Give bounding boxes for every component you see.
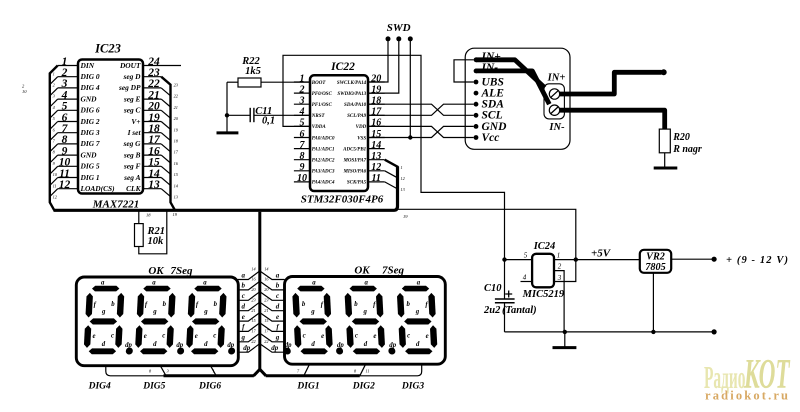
watermark Radio KOT logo <box>704 352 791 398</box>
display2 digit 1 segments (mirrored) <box>280 286 333 355</box>
svg-text:MAX7221: MAX7221 <box>92 198 139 210</box>
svg-text:CLK: CLK <box>126 184 141 193</box>
digit select rail right thin + DIG3 <box>360 365 422 376</box>
svg-text:12: 12 <box>59 179 71 191</box>
svg-text:MISO/PA6: MISO/PA6 <box>342 170 366 175</box>
svg-text:11: 11 <box>53 183 57 188</box>
IC24 pin 5 wire <box>504 259 533 261</box>
watermark radiokot.ru <box>705 389 788 403</box>
svg-text:3: 3 <box>167 368 169 373</box>
svg-text:a: a <box>312 280 316 287</box>
IC24 pin 2 wire (GND) <box>554 271 564 331</box>
svg-text:a: a <box>417 280 421 287</box>
svg-text:MOSI/PA7: MOSI/PA7 <box>342 159 366 164</box>
IC U23 MAX7221 chip body <box>78 60 143 194</box>
svg-text:8: 8 <box>300 151 305 162</box>
svg-text:DIG 2: DIG 2 <box>80 117 100 126</box>
bus split to digit rails <box>254 369 266 376</box>
svg-text:2: 2 <box>299 84 305 95</box>
svg-text:3: 3 <box>557 274 562 282</box>
svg-text:11: 11 <box>366 368 370 373</box>
svg-text:13: 13 <box>371 151 381 162</box>
7-segment display module 1 box <box>76 277 238 366</box>
digit select rail right (thick) <box>266 374 360 377</box>
svg-text:e: e <box>242 313 245 321</box>
svg-text:dp: dp <box>125 342 132 349</box>
svg-text:SCL/PA9: SCL/PA9 <box>347 114 367 119</box>
wire VR2 in to +9-12V terminal <box>671 258 712 260</box>
svg-text:+5V: +5V <box>591 247 612 259</box>
svg-text:20: 20 <box>370 73 381 84</box>
screw terminal IN+ <box>547 73 566 100</box>
svg-text:c: c <box>242 292 245 300</box>
svg-text:3: 3 <box>299 96 305 107</box>
fat wire terminal 1 out to stub node <box>558 72 662 94</box>
svg-text:23: 23 <box>147 67 160 79</box>
svg-text:SCK/PA5: SCK/PA5 <box>347 181 367 186</box>
display1 digit 1 segments <box>83 286 136 355</box>
svg-text:dp: dp <box>285 342 292 349</box>
svg-text:b: b <box>354 301 358 308</box>
svg-text:4: 4 <box>299 107 305 118</box>
svg-text:13: 13 <box>148 179 160 191</box>
svg-text:e: e <box>195 333 198 340</box>
svg-text:g: g <box>101 309 106 316</box>
bus wrapper right side of IC23 <box>161 77 179 211</box>
svg-text:6: 6 <box>300 129 305 140</box>
svg-text:DIG 6: DIG 6 <box>80 106 100 115</box>
resistor R21 10k (Iset) <box>135 212 178 254</box>
svg-text:d: d <box>102 341 106 348</box>
SWD pin 2 wire (SWDIO) <box>368 39 399 93</box>
svg-text:11: 11 <box>59 168 70 180</box>
svg-text:DIG 0: DIG 0 <box>80 72 100 81</box>
IC22 right pins 20-11 <box>368 73 385 184</box>
svg-text:19: 19 <box>173 212 178 217</box>
wire VR2 gnd <box>652 273 654 332</box>
svg-text:9: 9 <box>62 145 68 157</box>
7-segment display module 2 box <box>285 277 446 365</box>
display2 digit 2 segments (mirrored) <box>333 286 386 355</box>
svg-text:21: 21 <box>251 308 255 313</box>
svg-text:5: 5 <box>524 252 528 260</box>
svg-text:DIN: DIN <box>80 61 95 70</box>
svg-text:d: d <box>416 341 420 348</box>
DIG5 joint <box>160 366 166 376</box>
IC24 pin 3 wire (EN to IN) <box>554 261 576 282</box>
connector pin ALE <box>474 91 479 96</box>
svg-text:DIG 3: DIG 3 <box>80 128 100 137</box>
screw terminal box <box>544 84 564 119</box>
svg-text:g: g <box>310 309 315 316</box>
svg-text:radiokot.ru: radiokot.ru <box>705 389 788 403</box>
svg-text:I set: I set <box>127 128 142 137</box>
svg-text:DIG5: DIG5 <box>142 382 165 392</box>
svg-text:b: b <box>276 282 280 290</box>
svg-text:SWCLK/PA14: SWCLK/PA14 <box>337 81 367 86</box>
svg-text:15: 15 <box>371 129 381 140</box>
svg-text:VDDA: VDDA <box>312 125 327 130</box>
svg-text:14: 14 <box>148 168 160 180</box>
svg-text:3: 3 <box>61 78 68 90</box>
svg-text:IN+: IN+ <box>547 73 566 84</box>
svg-text:dp: dp <box>227 342 234 349</box>
svg-text:c: c <box>162 333 165 340</box>
svg-text:19: 19 <box>148 112 160 124</box>
svg-text:SWD: SWD <box>387 22 411 34</box>
svg-text:b: b <box>406 301 410 308</box>
svg-text:DIG 7: DIG 7 <box>80 139 100 148</box>
svg-text:14: 14 <box>264 266 268 271</box>
screw terminal IN- <box>548 105 565 133</box>
svg-text:IN-: IN- <box>481 62 499 74</box>
svg-text:GND: GND <box>81 150 98 159</box>
svg-text:7Seg: 7Seg <box>382 265 405 277</box>
svg-text:seg C: seg C <box>123 106 141 115</box>
svg-text:DIG 1: DIG 1 <box>80 173 100 182</box>
svg-text:PA1/ADC1: PA1/ADC1 <box>312 147 335 152</box>
svg-text:PA3/ADC3: PA3/ADC3 <box>312 170 335 175</box>
svg-text:e: e <box>321 333 324 340</box>
svg-text:22: 22 <box>264 339 268 344</box>
svg-text:18: 18 <box>371 96 381 107</box>
svg-text:24: 24 <box>147 56 160 68</box>
display segment bus vertical <box>258 212 261 369</box>
svg-text:DIG2: DIG2 <box>352 382 375 392</box>
svg-text:IC24: IC24 <box>533 241 556 252</box>
svg-text:b: b <box>163 301 167 308</box>
svg-text:seg F: seg F <box>123 162 141 171</box>
svg-text:a: a <box>101 280 105 287</box>
svg-text:e: e <box>92 333 95 340</box>
svg-text:17: 17 <box>371 107 382 118</box>
svg-text:OK: OK <box>354 265 370 277</box>
svg-text:13: 13 <box>174 195 178 200</box>
wire V+ (net 19) from bus to +5V <box>398 209 576 258</box>
svg-text:seg D: seg D <box>122 72 141 81</box>
IC24 pin 1 wire to +5V <box>554 259 640 261</box>
svg-text:e: e <box>276 313 279 321</box>
svg-text:c: c <box>303 333 306 340</box>
svg-text:1: 1 <box>62 56 68 68</box>
svg-text:R20: R20 <box>672 132 690 143</box>
svg-text:20: 20 <box>147 101 160 113</box>
svg-text:a: a <box>242 271 246 279</box>
svg-text:g: g <box>241 334 246 342</box>
svg-text:DIG 4: DIG 4 <box>80 83 100 92</box>
main signal bus (MAX7221 to displays/STM32) <box>54 167 398 211</box>
digit select rail left thin + DIG4 <box>106 366 164 376</box>
svg-text:14: 14 <box>371 140 381 151</box>
svg-text:13: 13 <box>401 187 405 192</box>
svg-text:b: b <box>214 301 218 308</box>
svg-text:16: 16 <box>148 145 160 157</box>
svg-text:10k: 10k <box>148 236 165 247</box>
svg-text:1: 1 <box>213 369 215 374</box>
connector pin IN+ <box>474 57 479 62</box>
connector pin UBS <box>474 80 479 85</box>
IC23 left pins 1-12 (stubs + numbers) <box>58 56 78 191</box>
svg-text:C10: C10 <box>484 283 502 294</box>
connector module box <box>465 48 570 149</box>
svg-text:10: 10 <box>22 89 27 94</box>
svg-text:4: 4 <box>523 274 527 282</box>
svg-text:a: a <box>152 280 156 287</box>
svg-text:23: 23 <box>264 298 268 303</box>
terminal node 9-12V minus <box>712 329 717 334</box>
svg-text:ADC5/PB1: ADC5/PB1 <box>342 147 366 152</box>
svg-text:d: d <box>311 341 315 348</box>
SWD pin 3 wire (GND to VSS) <box>409 39 411 138</box>
ground rail bottom <box>505 331 715 333</box>
wire GND/Vcc pair (pins 16/15) twisted crossing <box>368 126 474 137</box>
svg-text:a: a <box>364 280 368 287</box>
svg-text:c: c <box>355 333 358 340</box>
fat wire IN+ to screw terminal 1 <box>476 60 545 88</box>
svg-text:PA0/ADC0: PA0/ADC0 <box>312 136 335 141</box>
svg-text:9: 9 <box>300 162 305 173</box>
svg-text:SWDIO/PA13: SWDIO/PA13 <box>337 92 366 97</box>
svg-text:dp: dp <box>243 344 251 352</box>
bus wrapper right side of IC22 (pins 13,12,11) <box>385 160 406 206</box>
svg-text:5: 5 <box>300 118 305 129</box>
node junction VSS/SWD-GND <box>408 135 412 139</box>
svg-text:seg G: seg G <box>122 139 141 148</box>
DIG1 joint <box>304 365 309 376</box>
VR2 7805 regulator <box>640 250 671 273</box>
svg-text:21: 21 <box>147 89 160 101</box>
svg-text:dp: dp <box>271 344 279 352</box>
svg-text:2: 2 <box>61 67 68 79</box>
connector pin SDA <box>474 102 479 107</box>
svg-text:10: 10 <box>297 173 307 184</box>
svg-text:VSS: VSS <box>357 136 366 141</box>
svg-text:e: e <box>144 333 147 340</box>
IC24 pin 4 stub <box>521 281 533 283</box>
svg-text:g: g <box>152 309 157 316</box>
svg-text:c: c <box>276 292 279 300</box>
wire bracket IN+ to UBS <box>454 60 474 82</box>
node gnd rail / IC24 pin2 <box>563 330 567 334</box>
svg-text:d: d <box>204 341 208 348</box>
svg-text:21: 21 <box>264 308 268 313</box>
svg-text:DOUT: DOUT <box>119 61 141 70</box>
segment fanout wires a-dp to both displays <box>238 266 285 352</box>
svg-text:seg E: seg E <box>123 94 141 103</box>
svg-text:23: 23 <box>251 298 255 303</box>
svg-text:PA4/ADC4: PA4/ADC4 <box>312 181 335 186</box>
wire R22 down to ground <box>226 82 228 132</box>
DIG2 joint <box>360 365 366 376</box>
svg-text:LOAD(CS): LOAD(CS) <box>80 184 115 193</box>
fat wire terminal 2 to R20 <box>558 110 665 129</box>
resistor R22 1k5 (BOOT) <box>227 56 310 87</box>
svg-text:IC22: IC22 <box>330 61 355 73</box>
svg-text:c: c <box>111 333 114 340</box>
svg-text:NRST: NRST <box>311 114 326 119</box>
svg-text:1: 1 <box>53 71 55 76</box>
svg-text:V+: V+ <box>131 117 140 126</box>
svg-text:c: c <box>407 333 410 340</box>
svg-text:12: 12 <box>371 162 381 173</box>
svg-text:MIC5219: MIC5219 <box>522 289 565 300</box>
resistor R20 R nagr <box>659 129 702 155</box>
svg-text:(Tantal): (Tantal) <box>502 305 537 316</box>
svg-text:g: g <box>203 309 208 316</box>
svg-text:GND: GND <box>81 94 98 103</box>
svg-text:2: 2 <box>558 263 562 271</box>
svg-text:dp: dp <box>337 342 344 349</box>
svg-text:1: 1 <box>557 252 561 260</box>
svg-text:seg B: seg B <box>123 150 141 159</box>
display1 digit 3 segments <box>186 286 239 355</box>
svg-text:e: e <box>426 333 429 340</box>
svg-text:0,1: 0,1 <box>262 115 275 126</box>
svg-text:18: 18 <box>148 123 160 135</box>
svg-text:11: 11 <box>371 173 380 184</box>
ground symbol (rail) <box>553 332 577 348</box>
svg-text:15: 15 <box>251 318 255 323</box>
svg-text:IC23: IC23 <box>94 42 121 56</box>
svg-text:a: a <box>276 271 280 279</box>
connector pin GND <box>474 124 479 129</box>
IC U22 STM32F030F4P6 chip body <box>310 75 368 191</box>
svg-text:g: g <box>362 309 367 316</box>
svg-text:b: b <box>242 282 246 290</box>
svg-text:VR2: VR2 <box>646 252 665 263</box>
svg-text:DIG1: DIG1 <box>296 382 319 392</box>
svg-text:3: 3 <box>53 94 55 99</box>
svg-text:d: d <box>364 341 368 348</box>
svg-text:2u2: 2u2 <box>483 305 501 316</box>
svg-text:d: d <box>153 341 157 348</box>
svg-text:19: 19 <box>403 214 408 219</box>
svg-text:a: a <box>203 280 207 287</box>
svg-text:SDA/PA10: SDA/PA10 <box>344 103 367 108</box>
SWD pin 1 wire (SWCLK) <box>368 39 388 82</box>
IC23 right pins 24-13 (stubs + numbers) <box>143 56 181 191</box>
node junction R22/C11/gnd <box>225 113 229 117</box>
ground symbol (C11) <box>217 131 239 134</box>
svg-text:18: 18 <box>146 213 151 218</box>
svg-text:8: 8 <box>62 134 68 146</box>
svg-text:PA2/ADC2: PA2/ADC2 <box>312 159 335 164</box>
wire VDDA/VDD to 3.3V rail (IC24 out) <box>283 55 505 258</box>
display2 digit 3 segments (mirrored) <box>385 286 438 355</box>
svg-text:dp: dp <box>176 342 183 349</box>
svg-text:BOOT: BOOT <box>311 81 327 86</box>
svg-text:19: 19 <box>371 84 381 95</box>
svg-text:23: 23 <box>174 83 178 88</box>
svg-text:OK: OK <box>148 265 164 277</box>
node 3.3V at IC24 pin5 <box>502 257 506 261</box>
ground symbol (R20) <box>654 167 678 170</box>
IC24 MIC5219 body <box>532 254 554 287</box>
bus wrapper left side of IC23 <box>50 66 58 211</box>
svg-text:b: b <box>111 301 115 308</box>
svg-text:DIG 5: DIG 5 <box>80 162 100 171</box>
svg-text:6: 6 <box>62 112 68 124</box>
svg-text:e: e <box>373 333 376 340</box>
svg-text:16: 16 <box>371 118 381 129</box>
svg-text:22: 22 <box>251 339 255 344</box>
svg-text:DIG6: DIG6 <box>198 382 221 392</box>
svg-text:R nagr: R nagr <box>672 144 702 155</box>
svg-text:dp: dp <box>389 342 396 349</box>
svg-text:14: 14 <box>251 266 255 271</box>
svg-text:VDD: VDD <box>356 125 367 130</box>
connector pin IN- <box>474 69 479 74</box>
svg-text:DIG4: DIG4 <box>88 382 111 392</box>
svg-text:7Seg: 7Seg <box>171 265 194 277</box>
svg-text:PF0/OSC: PF0/OSC <box>312 92 333 97</box>
svg-text:7805: 7805 <box>645 262 665 273</box>
digit select rail left (thick) <box>164 374 254 377</box>
svg-text:IN-: IN- <box>548 122 565 133</box>
svg-text:5: 5 <box>62 101 68 113</box>
svg-text:g: g <box>275 334 280 342</box>
svg-text:seg A: seg A <box>123 173 140 182</box>
svg-text:4: 4 <box>61 89 68 101</box>
svg-text:21: 21 <box>174 105 178 110</box>
svg-text:10: 10 <box>59 157 71 169</box>
IC22 left pins 1-10 <box>294 73 310 184</box>
connector pin Vcc <box>474 135 479 140</box>
svg-text:d: d <box>242 303 246 311</box>
connector pin SCL <box>474 113 479 118</box>
svg-text:15: 15 <box>148 157 160 169</box>
svg-text:DIG3: DIG3 <box>401 382 424 392</box>
svg-text:22: 22 <box>147 78 160 90</box>
fat wire IN- to screw terminal 2 <box>476 71 549 104</box>
svg-text:PF1/OSC: PF1/OSC <box>312 103 333 108</box>
capacitor C10 2u2 Tantal <box>483 260 537 332</box>
svg-text:15: 15 <box>264 318 268 323</box>
svg-text:17: 17 <box>148 134 161 146</box>
svg-text:d: d <box>276 303 280 311</box>
svg-text:g: g <box>415 309 420 316</box>
capacitor C11 0,1 (NRST) <box>227 106 310 126</box>
svg-text:seg DP: seg DP <box>118 83 141 92</box>
svg-text:Vcc: Vcc <box>482 132 500 144</box>
wire SDA pair (pins 18/17) twisted crossing <box>368 104 474 115</box>
svg-text:b: b <box>302 301 306 308</box>
svg-text:STM32F030F4P6: STM32F030F4P6 <box>301 194 384 206</box>
DIG6 joint <box>211 366 217 376</box>
svg-text:c: c <box>213 333 216 340</box>
node +5V at IC24 pin1 <box>574 257 578 261</box>
svg-text:+ (9 - 12 V): + (9 - 12 V) <box>726 255 788 266</box>
svg-text:1: 1 <box>401 165 403 170</box>
display1 digit 2 segments <box>135 286 188 355</box>
svg-text:1k5: 1k5 <box>245 66 261 77</box>
